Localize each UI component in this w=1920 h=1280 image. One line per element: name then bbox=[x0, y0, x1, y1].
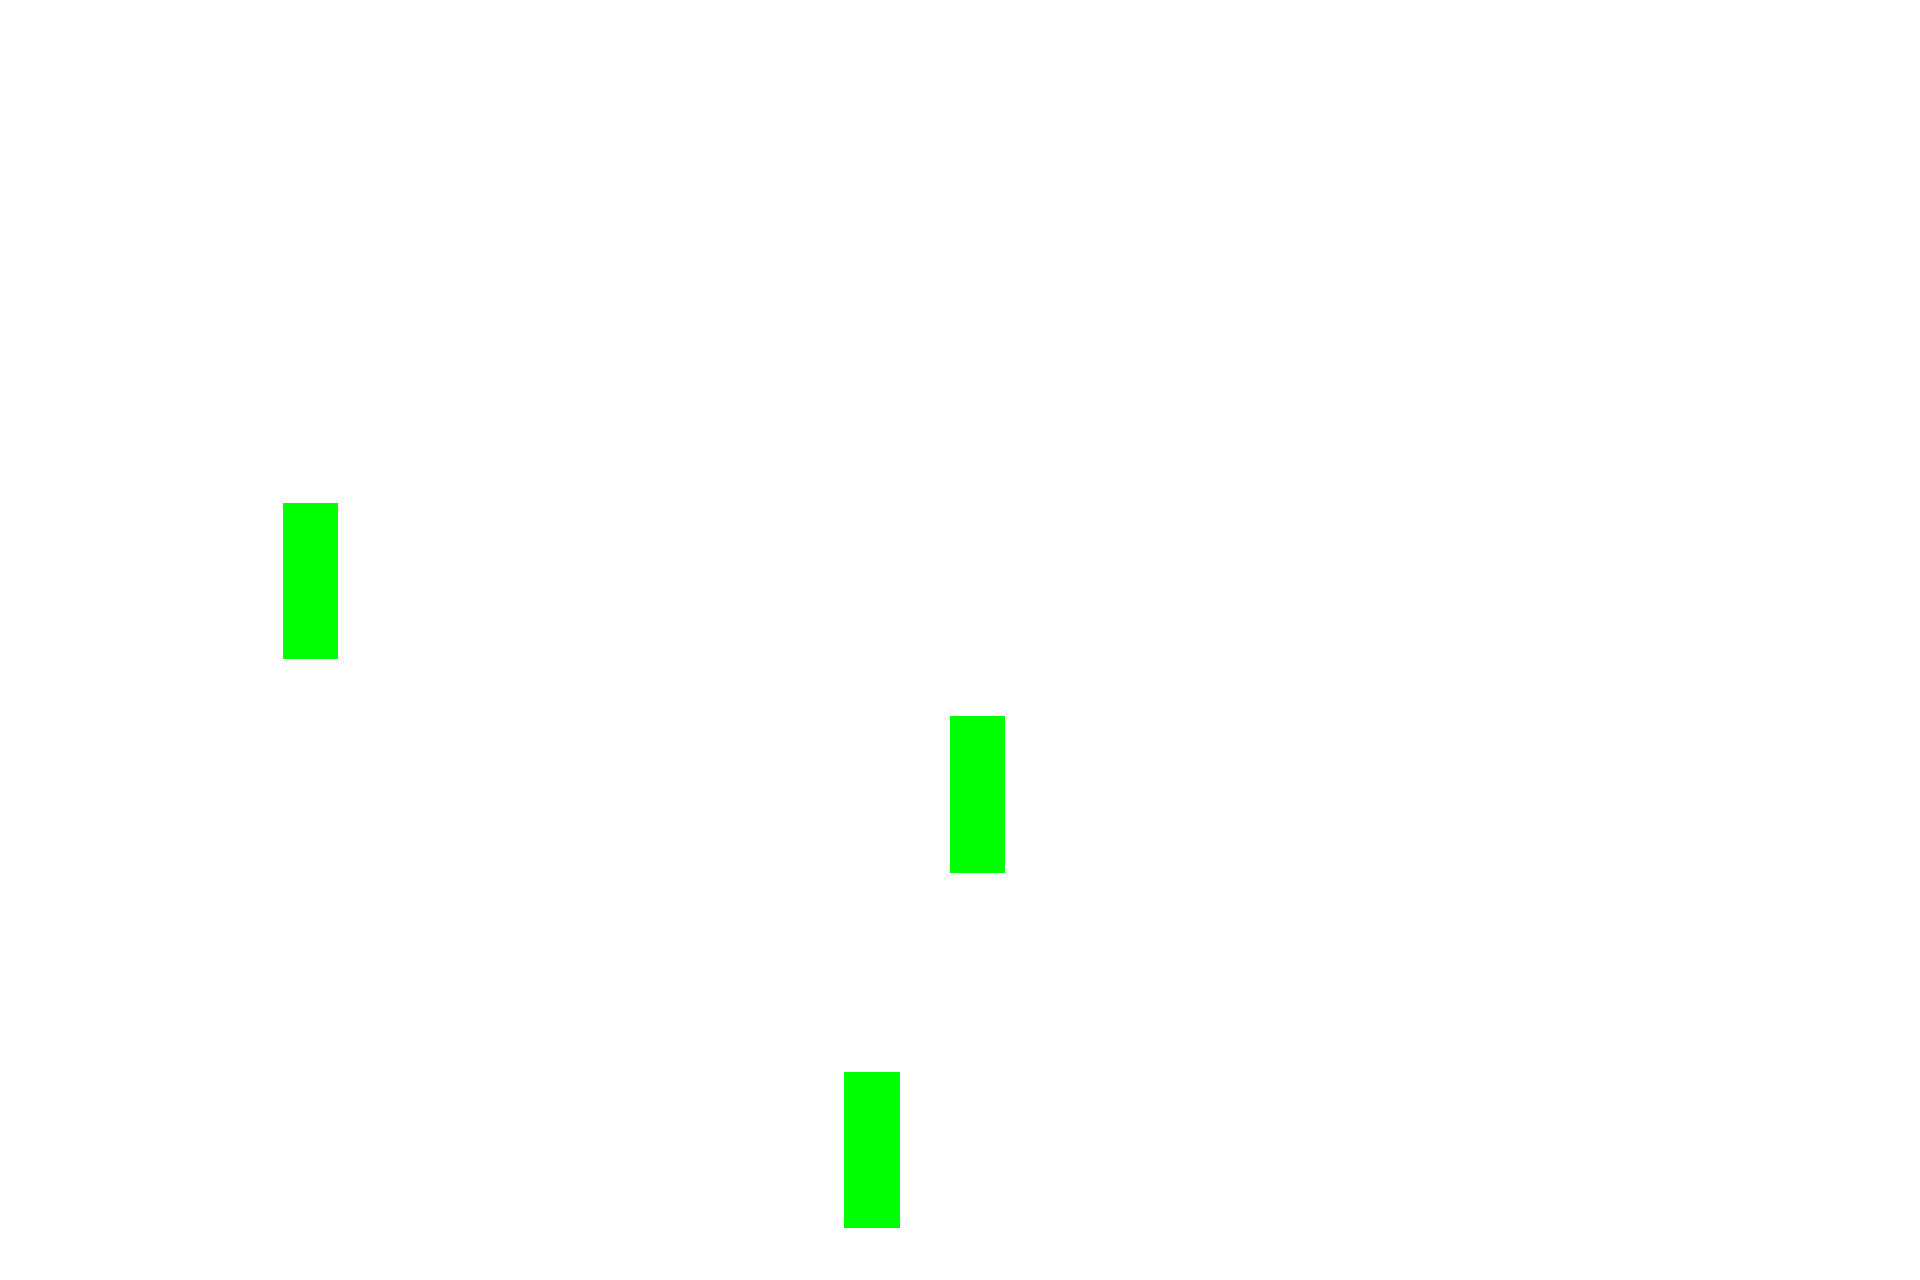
green bar 1 bbox=[283, 503, 338, 659]
green bar 2 bbox=[950, 716, 1005, 873]
green bar 3 bbox=[844, 1072, 900, 1228]
